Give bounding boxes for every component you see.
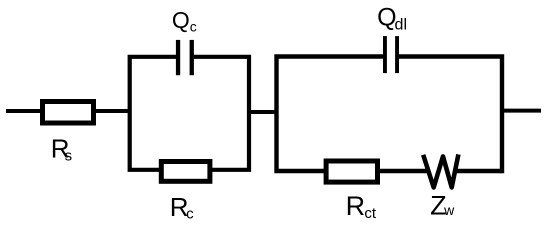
wire: link between block 1 and block 2 (249, 110, 278, 114)
capacitor Qdl (383, 36, 399, 73)
wire: block 2 left branch (top-left stub, left vertical, bottom-left stub) (277, 57, 384, 172)
resistor Rct (326, 161, 377, 182)
wire: left input terminal (6, 109, 43, 113)
resistor Rc (161, 162, 210, 182)
warburg element Zw (zigzag) (423, 154, 458, 187)
wire: block 1 right branch (top-right stub, right vertical, bottom-right stub) (194, 57, 249, 170)
resistor Rs (43, 102, 94, 124)
capacitor Qc (176, 40, 194, 75)
wire: block 2 right branch (top-right stub, right vertical) (399, 57, 502, 174)
wire: right output terminal (502, 109, 541, 113)
wire: block 1 left branch (top-left stub, left vertical, bottom-left stub) (130, 57, 176, 170)
wire: Zw to block 2 right vertical (455, 169, 503, 173)
wire: Rs to parallel block 1 (93, 109, 131, 113)
svg-text:Rs: Rs (51, 133, 72, 164)
wire: Rct to Warburg Zw (378, 169, 429, 173)
